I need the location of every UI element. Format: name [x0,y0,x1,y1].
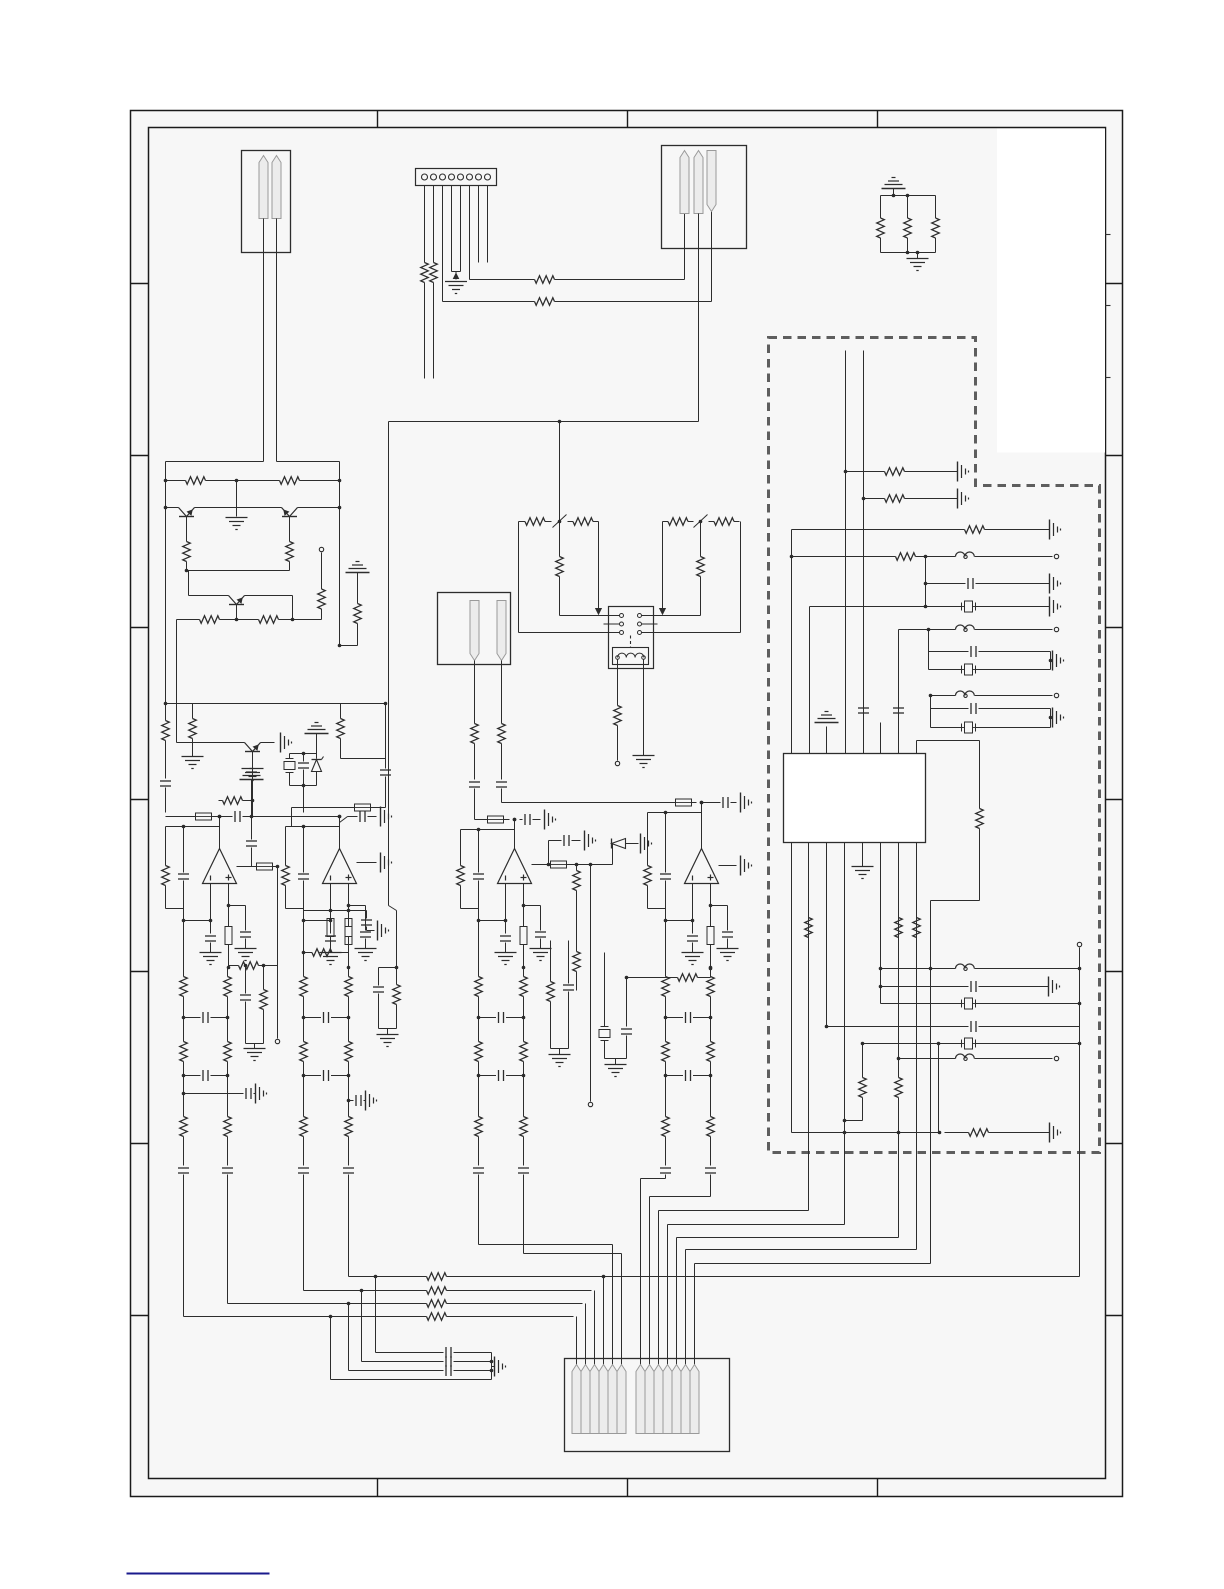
wire J2-6 [469,186,471,280]
jog wire [303,909,305,921]
wire [357,573,359,599]
wire [710,969,712,978]
capacitor C703 [445,1365,447,1376]
wire R605 down [979,831,981,901]
ladder resistor [710,1041,712,1042]
wire U2 colL connector [303,921,305,953]
Q-block bottom rail [166,703,386,705]
wire [567,864,613,866]
feedback capacitor U2 [298,873,309,875]
wire [474,745,476,780]
cap to chassis ground [182,1092,186,1096]
resistor R201 [424,262,426,263]
resistor R703 [421,1290,427,1292]
relay contact pins left [620,614,624,618]
resistor R407 [474,723,476,724]
capacitor C405 [626,978,628,1027]
Q1 collector [186,517,188,541]
capacitor C402 [563,835,565,846]
join + ground G103 [246,1043,264,1045]
boxed capacitor C302 [284,762,295,770]
border fold ticks right [1106,283,1123,285]
resistor R602 [879,498,885,500]
row y651 cap [929,651,969,653]
J4 pin 10 [663,1365,672,1434]
connector J3 [662,146,747,249]
arrow to ground [455,272,457,280]
op-amp U3 [498,849,532,884]
ground G403 [640,834,642,854]
capacitor C701 [445,1347,447,1358]
join + ground G607 [1050,709,1052,728]
jog wire [665,909,667,921]
Q3 collector [236,605,238,620]
connector J5 [438,593,511,665]
wire J2-5 [460,186,462,272]
J4 pin 9 [654,1365,663,1434]
J3 pin 3 [707,151,716,212]
ladder left column [303,953,305,976]
wire to right edge [357,629,359,646]
wire [862,1099,864,1121]
wire J2-4 [451,186,453,272]
terminal T402 [615,761,619,765]
wire bottom row left [519,632,620,634]
inductor L603 [956,691,975,696]
wire [321,553,323,586]
ladder resistor [183,1116,185,1117]
wire base rail mid [195,507,282,509]
row y583 cap to ground [926,583,966,585]
wire J2-8 [487,186,489,263]
feedback top wire [461,829,515,831]
cross capacitor [304,1017,322,1019]
wire [478,1175,480,1245]
wire J2-2 [433,186,435,262]
coil lead right [643,660,645,756]
wire J2-3 [442,186,444,302]
cap cluster wire 3 [348,1304,350,1371]
wire [504,819,510,821]
wire [665,1175,667,1179]
J4 pin 3 [590,1365,599,1434]
wires [348,816,358,818]
J4 pin 11 [672,1365,681,1434]
inverting input wire [692,884,694,934]
terminal T603 [1054,693,1058,697]
feedback capacitor column [665,813,667,873]
J2 pin 6 [467,174,473,180]
wire output to apex [513,818,517,822]
wires [289,773,291,786]
signal ground G305 [356,561,360,563]
cap cluster join + ground G701 [491,1353,493,1380]
transistor Q2 [290,508,298,517]
wire [316,734,318,754]
J4 pin 12 [681,1365,690,1434]
wire x291 down to feedback bracket [291,808,293,827]
wire J2-7 [478,186,480,263]
capacitor C102 [234,811,236,822]
wire J5-1 into U3 row [474,791,476,820]
ladder resistor [523,1041,525,1042]
wire [305,480,340,482]
IC pin ground top [826,727,828,754]
ladder resistor [227,1116,229,1117]
diode D401 [612,844,614,865]
series boxed resistor [523,906,525,927]
boxed resistor R402 [551,861,567,868]
inner border frame [149,128,1106,1479]
feedback bottom wire [648,908,666,910]
resistor R307 [253,619,259,621]
non-inverting input wire [710,884,712,906]
ground U3 plus [530,948,552,950]
wire x925 down [925,557,927,607]
terminal T401 [588,1102,592,1106]
collector join wire [187,570,290,572]
U2 output jog [340,817,348,823]
series boxed resistor [348,906,350,927]
wire [285,619,322,621]
feedback resistor U1 [165,865,167,866]
resistor R104 [228,966,230,968]
inductor L602 [956,625,975,630]
wire [213,480,275,482]
branch cap wire [229,905,246,907]
row y977 resistor R502 [627,977,673,979]
wire [166,480,179,482]
zener diode D301 [312,759,322,761]
Q-block top rail [166,461,264,463]
wire to cap [341,758,386,760]
ground G206 [377,921,379,941]
boxed resistor U3 plus [520,927,527,945]
boxed resistor R312 [292,807,355,809]
row y1316 [184,1316,421,1318]
jog wire [478,909,480,921]
ground U4 inv [682,952,704,954]
capacitor C403 [568,941,570,984]
J4 pin 4 [599,1365,608,1434]
coil lead left [617,660,619,704]
wire [898,1099,900,1238]
jog wire [389,906,397,911]
J4 pin 7 [636,1365,645,1434]
capacitor C501 [722,797,724,808]
row 471 RC to ground [846,471,879,473]
wire [710,1175,712,1197]
row y1276 [349,1276,421,1278]
terminal T601 [1054,554,1058,558]
wire top row right [642,615,701,617]
ground G605 [1049,597,1051,617]
ground G601 [957,462,959,482]
ground G406 [633,755,655,757]
resonator X604 [965,998,973,1009]
wire [186,563,188,571]
wire row1 to J3 pin1 [561,279,685,281]
resistor R607 [808,917,810,919]
join + ground G606 [1050,652,1052,670]
boxed resistor R501 [676,799,692,806]
U4 side ground wire [719,865,737,867]
row y1003 resonator [881,1003,962,1005]
wires [549,840,562,842]
wire [348,945,350,968]
ground U1 plus [235,948,257,950]
feedback capacitor column [303,827,305,873]
signal ground G202 [892,177,896,179]
resistor R403 [576,865,578,869]
IC bottom pin x791 [791,843,793,1133]
wire [617,728,619,761]
resistor R213 [304,952,313,954]
relay K1 outline [609,607,654,669]
feedback capacitor U4 [660,873,671,875]
wire mid down [236,481,238,517]
J2 pin 4 [449,174,455,180]
resonator X603 [965,722,973,733]
op-amp U1 [203,849,237,884]
ladder resistor [227,1041,229,1042]
ladder resistor [523,1116,525,1117]
ladder resistor [523,976,525,977]
ground U2 plus [355,948,377,950]
wire down x388 [388,422,390,906]
long wire J5-2 to U4 [502,802,676,804]
ground G401 [544,810,546,830]
resistor R601 [879,471,885,473]
wire RV2 right end down [740,522,742,633]
resistor R308 [357,599,359,604]
feedback resistor U4 [647,865,649,866]
resistor R302 [275,480,280,482]
ground G602 [957,489,959,509]
IC bottom pin x844 [844,843,846,1225]
ladder resistor [710,976,712,977]
R group bottom rail [881,252,936,254]
Q4 emitter to ground [261,742,275,744]
relay contact pins right [638,614,642,618]
J1 pin 1 [259,156,268,219]
capacitor U3 inv [500,935,511,937]
RV1 wiper [553,515,567,528]
J2 pin 7 [476,174,482,180]
resistor R306 [194,619,200,621]
ground G204 [380,807,382,827]
terminal T602 [1054,627,1058,631]
ground G201 [445,281,467,283]
cross capacitor [304,1075,322,1077]
wire RV1 right end down [598,522,600,611]
terminal T605 [1077,942,1081,946]
resistor R603 [959,529,965,531]
base rail [164,506,168,510]
ladder resistor [348,1116,350,1117]
row y708 cap [931,708,969,710]
Q3 emitter wire [245,595,293,597]
relay actuator dashed link [630,636,632,648]
series capacitor [518,1167,529,1169]
J4 pin 5 [608,1365,617,1434]
ladder left column [665,921,667,976]
wire output to apex [700,801,704,805]
IC pin cap top [898,701,900,754]
ladder right column [710,968,712,976]
wire [226,619,253,621]
capacitor C602 [967,578,969,589]
series boxed resistor [228,906,230,927]
U2 side ground wire [357,862,377,864]
wire J1-2 down [276,219,278,462]
J5 pin 1 [470,601,479,661]
terminal T301 [319,547,323,551]
wire row1 [470,279,529,281]
non-inverting input wire [348,884,350,906]
transistor Q4 [245,743,253,752]
row y606 resonator to ground [810,606,962,608]
resistor R309 to ground [251,799,255,803]
Q-block right edge [339,462,341,646]
J4 pin 8 [645,1365,654,1434]
row y1290 [304,1290,421,1292]
cap to chassis ground [347,1099,351,1103]
capacitor U2 inv [325,935,336,937]
IC bottom pin x826 [826,843,828,1027]
relay coil box [613,648,649,665]
J4 pin 2 [581,1365,590,1434]
R group top rail [881,195,936,197]
relay coil winding [618,653,644,657]
boxed resistor U2 plus [345,927,352,945]
wire x928 down [928,630,930,670]
resistor RV1 center tap [559,522,561,556]
U3 output row [532,864,549,866]
wire to terminal [277,867,279,1039]
boxed resistor R401 [488,816,504,823]
non-inverting input wire [523,884,525,906]
resistor row y619 [177,619,194,621]
ground G609 [1049,1123,1051,1143]
cap cluster wire 1 [375,1277,377,1353]
resistor R704 [421,1276,427,1278]
cap cluster wire 2 [361,1291,363,1362]
row y1058 coil to terminal [899,1058,956,1060]
resistor R404 [576,951,578,952]
row y1026 cap [827,1026,969,1028]
node row 480 [164,479,168,483]
resonator X601 [965,601,973,612]
ladder right column [227,968,229,976]
inverting input wire [330,884,332,934]
wire to Q3 [188,571,190,596]
ladder left column [478,921,480,976]
resistor R406 [617,704,619,706]
capacitor U3 plus [535,931,546,933]
capacitor C401 [524,814,526,825]
wire [192,741,194,757]
resistor R608 [898,917,900,919]
row 498 RC to ground [864,498,879,500]
ladder resistor [478,1116,480,1117]
capacitor C303 [303,759,305,762]
branch cap wire [524,905,541,907]
feedback resistor column [285,827,287,865]
op-amp U2 [323,849,357,884]
feedback capacitor U1 [178,873,189,875]
wire J2-1 [424,186,426,262]
op-amp U4 [685,849,719,884]
resistor R604 [890,556,896,558]
ground U3 inv [495,952,517,954]
row y1043 resonator [863,1043,962,1045]
resistor R301 [179,480,186,482]
wire V2 into IC [863,351,865,754]
capacitor C606 [970,981,972,992]
capacitor C502 [496,781,507,783]
series capacitor [298,1167,309,1169]
feedback bottom wire [166,908,184,910]
series capacitor [660,1167,671,1169]
ground G610 [852,866,874,868]
capacitor C603 [970,646,972,657]
capacitor C406 [469,781,480,783]
wire [303,1175,305,1291]
resistor R701 [421,1316,427,1318]
resistor R102 [192,704,194,717]
wire x791 down to IC [791,530,793,754]
non-inverting input wire [228,884,230,906]
wire [576,893,578,951]
wire J1-1 down [263,219,265,462]
wire [893,189,895,196]
ground G203 [917,253,919,259]
wire [298,507,340,509]
wire [692,802,697,804]
ground G611 [1048,977,1050,997]
resistor R702 [421,1303,427,1305]
signal ground G102 [250,768,254,770]
ground G502 [740,856,742,876]
feedback top wire [166,826,220,828]
border fold ticks top [377,111,379,128]
node pot feed [558,420,562,424]
white masked region top-right [997,129,1105,453]
feedback top wire [286,826,340,828]
wire [520,819,523,821]
resistor R405 [550,981,552,982]
resistor R313 [396,984,398,985]
ladder resistor [478,1041,480,1042]
inductor L604 [956,964,975,969]
wires [880,241,882,253]
capacitor C702 [445,1356,447,1367]
potentiometer RV1 right half [568,521,574,523]
inductor L601 [956,552,975,557]
wire [385,777,387,808]
series capacitor [178,1167,189,1169]
wire x930 down [930,696,932,728]
wire [165,788,167,813]
join + ground G404 [551,1048,569,1050]
zener group bottom rail [290,785,317,787]
join + ground G304 [379,1028,397,1030]
wire [228,945,230,968]
row y669 resonator [929,669,962,671]
terminal T101 [275,1039,279,1043]
resistor R105 [263,989,265,990]
